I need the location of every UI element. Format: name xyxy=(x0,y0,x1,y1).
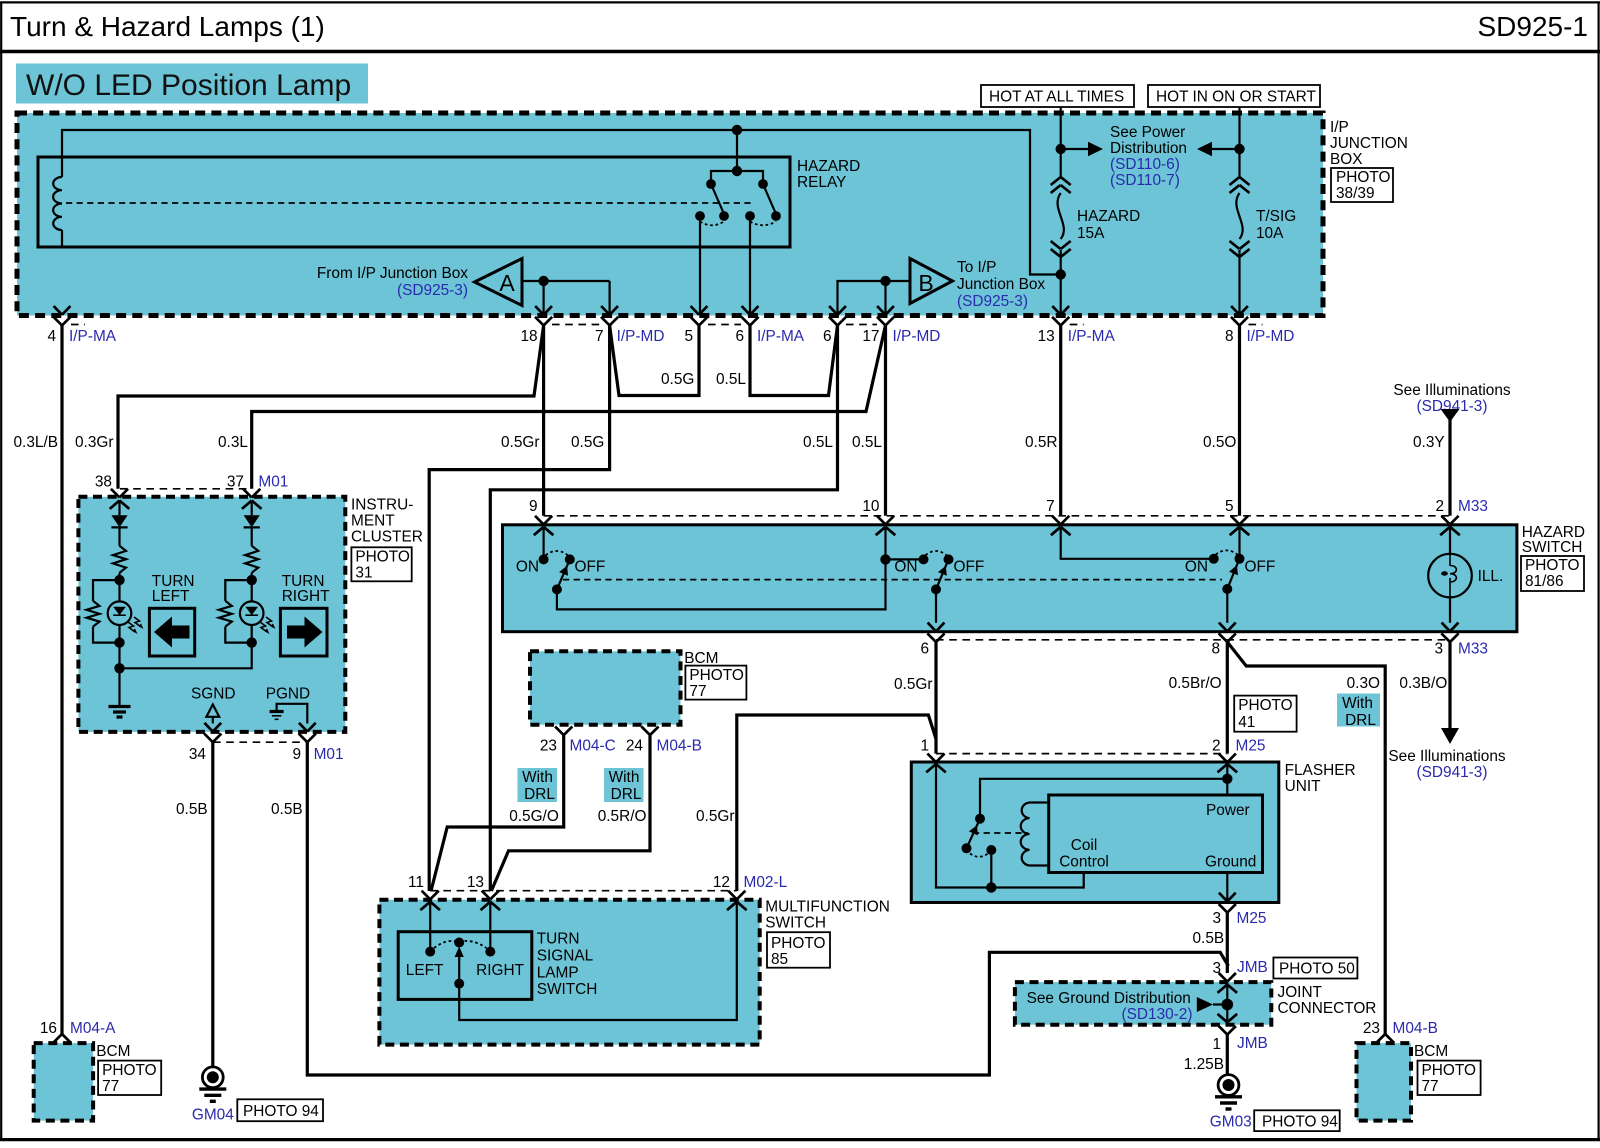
svg-text:PHOTO: PHOTO xyxy=(1336,169,1390,186)
svg-text:HAZARD: HAZARD xyxy=(797,158,860,175)
flasher internal: pin1 wire xyxy=(936,764,991,888)
svg-text:With: With xyxy=(609,769,640,786)
svg-text:M25: M25 xyxy=(1236,738,1266,755)
svg-text:FLASHER: FLASHER xyxy=(1285,762,1356,779)
svg-text:Coil: Coil xyxy=(1071,837,1098,854)
svg-text:M33: M33 xyxy=(1458,641,1488,658)
svg-text:7: 7 xyxy=(595,328,604,345)
svg-text:34: 34 xyxy=(189,746,207,763)
svg-text:(SD925-3): (SD925-3) xyxy=(397,282,468,299)
arrow into joint connector node xyxy=(1197,997,1213,1012)
svg-text:0.3O: 0.3O xyxy=(1347,675,1380,692)
cluster pin 34 xyxy=(204,723,212,732)
svg-text:0.3L/B: 0.3L/B xyxy=(14,434,59,451)
wire to resistor xyxy=(118,527,120,545)
svg-text:4: 4 xyxy=(47,328,56,345)
With DRL tag (pin23) xyxy=(518,768,558,802)
photo ref PHOTO 94 (GM03) xyxy=(1254,1110,1340,1131)
svg-text:3: 3 xyxy=(1212,910,1221,927)
wire 0.3Gr pin18 branch to cluster pin38 xyxy=(118,325,544,488)
junction node top rail / relay contacts xyxy=(732,125,742,135)
flasher coil xyxy=(1021,803,1030,866)
MF pin 12 M02-L xyxy=(728,891,737,900)
wire switch1 output xyxy=(557,559,886,609)
wire 1.25B to GM03 xyxy=(1226,1035,1229,1076)
arrow to See Power Distribution (left) xyxy=(1212,148,1240,150)
With DRL tag (pin24) xyxy=(604,768,644,802)
svg-text:CONNECTOR: CONNECTOR xyxy=(1278,1000,1377,1017)
svg-text:9: 9 xyxy=(529,498,538,515)
svg-text:HOT AT ALL TIMES: HOT AT ALL TIMES xyxy=(989,89,1124,106)
svg-text:10A: 10A xyxy=(1256,225,1284,242)
switch 2 (pin10 to pin6) ON/OFF xyxy=(884,527,886,560)
junction node left branch bottom xyxy=(114,637,124,647)
junction node to sub ground xyxy=(114,663,124,673)
BCM pin 16 M04-A xyxy=(53,1034,62,1043)
connector line M33 top xyxy=(544,515,1450,517)
svg-text:I/P-MD: I/P-MD xyxy=(1247,328,1295,345)
wire: top rail coil to fuse node xyxy=(62,130,1058,275)
svg-text:B: B xyxy=(918,270,933,296)
svg-text:SGND: SGND xyxy=(191,686,235,703)
svg-text:RELAY: RELAY xyxy=(797,174,846,191)
wire 0.5G pin7 to multifunction switch pin11 xyxy=(429,325,609,891)
illumination lamp ILL. xyxy=(1449,527,1451,554)
svg-text:13: 13 xyxy=(467,874,484,891)
svg-text:10: 10 xyxy=(862,498,879,515)
arrow to See Power Distribution (right) xyxy=(1061,148,1088,150)
svg-text:I/P-MD: I/P-MD xyxy=(617,328,665,345)
svg-text:With: With xyxy=(522,769,553,786)
svg-text:BOX: BOX xyxy=(1330,151,1363,168)
svg-text:See Illuminations: See Illuminations xyxy=(1388,748,1506,765)
svg-text:MENT: MENT xyxy=(351,513,395,530)
connector line M02-L xyxy=(430,890,737,892)
svg-text:15A: 15A xyxy=(1077,225,1105,242)
svg-text:OFF: OFF xyxy=(1245,559,1276,576)
svg-text:INSTRU-: INSTRU- xyxy=(351,497,413,514)
ground GM03 xyxy=(1218,1075,1239,1096)
turn left lamp xyxy=(118,580,120,601)
hazard switch pin 6 M33 xyxy=(928,623,936,632)
svg-text:5: 5 xyxy=(1225,498,1234,515)
svg-text:8: 8 xyxy=(1211,641,1220,658)
svg-text:Distribution: Distribution xyxy=(1110,140,1187,157)
svg-text:From I/P Junction Box: From I/P Junction Box xyxy=(317,265,468,282)
flasher switch contact xyxy=(975,814,985,824)
With DRL tag (0.3O wire) xyxy=(1337,694,1380,727)
svg-text:PHOTO: PHOTO xyxy=(771,935,825,952)
fuse HAZARD 15A xyxy=(1051,177,1061,185)
switch 1 (pin9) ON/OFF xyxy=(542,527,544,560)
svg-text:LEFT: LEFT xyxy=(406,962,444,979)
svg-text:1.25B: 1.25B xyxy=(1184,1056,1224,1073)
svg-text:ON: ON xyxy=(894,559,917,576)
svg-text:M04-A: M04-A xyxy=(70,1020,116,1037)
svg-text:JOINT: JOINT xyxy=(1278,984,1323,1001)
svg-text:PHOTO 94: PHOTO 94 xyxy=(243,1103,319,1120)
wire: pins 6/17 to triangle B xyxy=(838,281,911,315)
svg-text:PHOTO: PHOTO xyxy=(1525,557,1579,574)
relay internal dashed link xyxy=(66,202,755,204)
photo ref PHOTO 77 xyxy=(685,666,746,700)
wire 0.5Gr switch pin6 to flasher pin1 and MF pin12 xyxy=(934,642,937,754)
svg-text:GM04: GM04 xyxy=(192,1107,234,1124)
wire 0.5G loop pin5 to pin7 xyxy=(610,325,699,395)
svg-text:1: 1 xyxy=(920,738,929,755)
svg-text:0.5B: 0.5B xyxy=(176,801,208,818)
svg-text:8: 8 xyxy=(1225,328,1234,345)
svg-text:0.5R/O: 0.5R/O xyxy=(598,808,647,825)
hazard switch pin 3 M33 xyxy=(1442,623,1450,632)
wire: ignition feed into fuse T/SIG xyxy=(1238,107,1240,177)
svg-text:OFF: OFF xyxy=(954,559,985,576)
svg-text:M02-L: M02-L xyxy=(744,874,788,891)
svg-text:DRL: DRL xyxy=(611,786,642,803)
svg-text:31: 31 xyxy=(355,564,372,581)
svg-text:3: 3 xyxy=(1434,641,1443,658)
svg-text:77: 77 xyxy=(689,683,706,700)
junction box pin 4 I/P-MA xyxy=(54,306,62,315)
flasher relay module box xyxy=(1049,795,1263,873)
svg-text:PHOTO: PHOTO xyxy=(1422,1062,1476,1079)
svg-text:12: 12 xyxy=(713,874,730,891)
PGND symbol xyxy=(277,704,308,724)
svg-text:0.5L: 0.5L xyxy=(803,434,833,451)
flasher internal: bottom node xyxy=(990,850,992,888)
junction node ignition feed xyxy=(1234,144,1244,154)
wire 0.5R pin13 to hazard switch pin7 xyxy=(1059,325,1062,515)
svg-text:PHOTO: PHOTO xyxy=(102,1062,156,1079)
svg-text:HAZARD: HAZARD xyxy=(1077,208,1140,225)
svg-text:0.3B/O: 0.3B/O xyxy=(1399,675,1447,692)
label HOT AT ALL TIMES xyxy=(981,85,1134,107)
photo ref PHOTO 41 xyxy=(1234,696,1296,732)
wire: triangle A to pins 18/7 xyxy=(522,280,610,282)
MF wiper arc xyxy=(434,941,459,948)
svg-text:(SD941-3): (SD941-3) xyxy=(1417,764,1488,781)
svg-text:0.5R: 0.5R xyxy=(1025,434,1058,451)
svg-text:0.5B: 0.5B xyxy=(271,801,303,818)
flasher pin 1 xyxy=(927,754,936,763)
header label: W/O LED Position Lamp xyxy=(16,64,368,104)
hazard switch pin 7 M33 xyxy=(1052,516,1061,525)
wire 0.5L pin17 to hazard switch pin10 xyxy=(884,325,887,515)
turn left arrow icon xyxy=(149,608,194,656)
svg-text:BCM: BCM xyxy=(1414,1043,1448,1060)
svg-text:85: 85 xyxy=(771,951,788,968)
svg-text:0.5G: 0.5G xyxy=(571,434,604,451)
svg-text:LEFT: LEFT xyxy=(152,588,190,605)
wire: fuse HAZARD output to pin 13 xyxy=(1060,250,1062,315)
junction box pin 7 I/P-MD xyxy=(601,306,609,315)
svg-text:CLUSTER: CLUSTER xyxy=(351,529,423,546)
svg-text:23: 23 xyxy=(1363,1020,1380,1037)
svg-text:11: 11 xyxy=(408,874,424,891)
relay moving contact right xyxy=(758,179,768,189)
junction node battery feed xyxy=(1056,144,1066,154)
svg-text:W/O LED Position Lamp: W/O LED Position Lamp xyxy=(26,69,351,102)
svg-text:81/86: 81/86 xyxy=(1525,573,1564,590)
wire 0.5R/O BCM24 to MF pin13 xyxy=(491,735,650,891)
svg-text:M01: M01 xyxy=(314,746,344,763)
svg-text:See Power: See Power xyxy=(1110,124,1185,141)
junction box pin 18 xyxy=(535,306,543,315)
title divider line xyxy=(0,50,1600,53)
flasher pin 2 M25 xyxy=(1219,754,1228,763)
wire 0.5Gr pin18 to hazard switch pin9 xyxy=(542,325,545,515)
svg-text:Ground: Ground xyxy=(1205,854,1256,871)
svg-text:SD925-1: SD925-1 xyxy=(1477,11,1588,42)
svg-text:2: 2 xyxy=(1435,498,1444,515)
connector triangle B To I/P Junction Box (SD925-3) xyxy=(910,259,953,304)
parallel resistor loop right xyxy=(225,580,251,601)
turn left indicator diode xyxy=(118,501,120,516)
svg-text:38: 38 xyxy=(95,474,112,491)
page border frame xyxy=(0,1,1600,3)
relay fixed contact right xyxy=(745,211,755,221)
MF internal: pin13 to RIGHT contact xyxy=(489,902,491,952)
svg-text:PHOTO: PHOTO xyxy=(689,667,743,684)
connector bridge pins 6-17 xyxy=(846,324,877,326)
svg-text:SIGNAL: SIGNAL xyxy=(537,947,594,964)
svg-text:(SD130-2): (SD130-2) xyxy=(1122,1006,1193,1023)
svg-text:RIGHT: RIGHT xyxy=(476,962,524,979)
wire 0.3L/B pin4 to BCM pin16 xyxy=(60,325,63,1034)
svg-text:(SD110-7): (SD110-7) xyxy=(1110,172,1180,189)
svg-text:PHOTO: PHOTO xyxy=(1238,697,1292,714)
BCM pin 23 M04-B xyxy=(1377,1034,1386,1043)
svg-text:0.5Gr: 0.5Gr xyxy=(501,434,540,451)
junction box pin 6 xyxy=(829,306,837,315)
BCM box (bottom left) xyxy=(34,1043,93,1121)
connector triangle A From I/P Junction Box (SD925-3) xyxy=(475,259,523,306)
cluster internal ground xyxy=(118,668,120,706)
photo ref PHOTO 77 (right BCM) xyxy=(1418,1061,1481,1095)
hazard switch pin 10 M33 xyxy=(877,516,886,525)
hazard switch pin 2 M33 xyxy=(1441,516,1450,525)
BCM pin 23 M04-C xyxy=(555,727,564,736)
wire: relay contact to pin 6 xyxy=(749,216,751,315)
svg-text:DRL: DRL xyxy=(1345,712,1376,729)
cluster pin 9 M01 xyxy=(299,723,307,732)
svg-text:77: 77 xyxy=(102,1078,119,1095)
resistor (right branch series) xyxy=(245,546,258,573)
junction box pin 8 I/P-MD xyxy=(1231,306,1239,315)
svg-text:23: 23 xyxy=(540,738,557,755)
hazard relay box xyxy=(38,157,790,247)
BCM pin 24 M04-B xyxy=(641,727,650,736)
svg-text:0.3L: 0.3L xyxy=(218,434,248,451)
connector line M33 bottom xyxy=(936,639,1450,641)
svg-text:0.5L: 0.5L xyxy=(716,371,746,388)
joint connector box xyxy=(1015,982,1271,1025)
svg-text:0.5Br/O: 0.5Br/O xyxy=(1169,675,1222,692)
svg-text:TURN: TURN xyxy=(537,931,580,948)
photo ref PHOTO 77 (left BCM) xyxy=(98,1061,161,1095)
svg-text:OFF: OFF xyxy=(575,559,606,576)
wire 0.5L loop pin6 to pin6 xyxy=(750,325,838,395)
SGND symbol xyxy=(206,705,219,717)
relay moving contact left xyxy=(706,179,716,189)
parallel resistor loop left xyxy=(93,580,120,601)
fuse T/SIG 10A xyxy=(1230,177,1240,185)
junction node right branch top xyxy=(247,575,257,585)
svg-text:2: 2 xyxy=(1212,738,1221,755)
wire: relay contact to pin 5 xyxy=(699,216,701,315)
turn signal lamp switch inner box xyxy=(398,932,532,1000)
svg-text:LAMP: LAMP xyxy=(537,964,579,981)
svg-text:0.5Gr: 0.5Gr xyxy=(696,808,735,825)
svg-text:16: 16 xyxy=(40,1020,57,1037)
svg-text:(SD925-3): (SD925-3) xyxy=(957,293,1028,310)
junction node fuse output / relay rail xyxy=(1056,269,1066,279)
cluster pin 38 xyxy=(111,489,120,498)
MF wiper arm xyxy=(458,950,460,984)
hazard switch pin 9 M33 xyxy=(535,516,544,525)
hazard switch pin 5 M33 xyxy=(1231,516,1240,525)
connector line M25 top xyxy=(936,753,1227,755)
photo ref PHOTO 38/39 xyxy=(1331,168,1393,202)
svg-text:HOT IN ON OR START: HOT IN ON OR START xyxy=(1156,89,1317,106)
connector line M01 top xyxy=(120,488,252,490)
svg-text:0.5B: 0.5B xyxy=(1193,930,1225,947)
MF pin 11 xyxy=(422,891,431,900)
svg-text:GM03: GM03 xyxy=(1210,1114,1252,1131)
wire 0.3B/O pin3 to See Illuminations xyxy=(1448,642,1451,728)
svg-text:M04-B: M04-B xyxy=(657,738,702,755)
MF internal: pin11 to LEFT contact xyxy=(429,902,431,952)
junction box pin 6 I/P-MA xyxy=(742,306,750,315)
svg-text:13: 13 xyxy=(1038,328,1055,345)
svg-text:PHOTO 50: PHOTO 50 xyxy=(1279,961,1355,978)
svg-text:BCM: BCM xyxy=(684,650,718,667)
turn right lamp xyxy=(251,580,253,601)
svg-text:ILL.: ILL. xyxy=(1478,568,1504,585)
svg-text:M01: M01 xyxy=(258,474,288,491)
connector bridge pins 18-7 xyxy=(552,324,601,326)
switch 3 (pin7/pin5 to pin8) ON/OFF xyxy=(1061,527,1214,559)
svg-text:5: 5 xyxy=(684,328,693,345)
wire 0.5Br/O switch pin8 to flasher pin2 xyxy=(1226,642,1229,754)
I/P Junction Box (dashed) xyxy=(17,113,1323,316)
svg-text:I/P: I/P xyxy=(1330,119,1349,136)
turn right indicator diode xyxy=(251,501,253,516)
svg-text:6: 6 xyxy=(823,328,832,345)
wire 0.5B pin34 to GM04 xyxy=(211,742,214,1067)
svg-text:I/P-MA: I/P-MA xyxy=(1068,328,1116,345)
wire 0.3L pin17 branch to cluster pin37 xyxy=(252,325,886,488)
svg-text:0.5Gr: 0.5Gr xyxy=(894,676,933,693)
junction box pin 17 I/P-MD xyxy=(877,306,885,315)
svg-text:JMB: JMB xyxy=(1237,959,1268,976)
svg-text:M04-C: M04-C xyxy=(570,738,616,755)
svg-text:MULTIFUNCTION: MULTIFUNCTION xyxy=(765,899,890,916)
flasher pin 3 M25 xyxy=(1219,904,1228,913)
hazard switch internal dashed linkage xyxy=(563,579,1222,581)
wire 0.5G/O BCM23 to MF pin11 xyxy=(431,735,564,891)
svg-text:UNIT: UNIT xyxy=(1285,778,1322,795)
svg-text:0.5L: 0.5L xyxy=(852,434,882,451)
svg-text:I/P-MA: I/P-MA xyxy=(69,328,117,345)
svg-text:ON: ON xyxy=(1185,559,1208,576)
joint connector wire through xyxy=(1226,983,1228,1024)
wire 0.5B pin9 to joint connector xyxy=(307,742,1228,1075)
wire 0.5O pin8 to hazard switch pin5 xyxy=(1238,325,1241,515)
svg-text:17: 17 xyxy=(862,328,879,345)
svg-text:38/39: 38/39 xyxy=(1336,185,1375,202)
wire 0.3Y illumination feed to hazard switch pin2 xyxy=(1448,410,1451,516)
svg-text:PHOTO 94: PHOTO 94 xyxy=(1262,1114,1338,1131)
multifunction switch box xyxy=(379,900,759,1045)
wire: battery feed into fuse HAZARD xyxy=(1060,107,1062,177)
svg-text:0.5G: 0.5G xyxy=(661,371,694,388)
svg-text:24: 24 xyxy=(626,738,644,755)
wire 0.3O switch pin8 to BCM pin23 (bottom right) xyxy=(1227,642,1385,1034)
wire: fuse T/SIG output to pin 8 xyxy=(1238,250,1240,315)
flasher mech dashed link xyxy=(973,832,1028,834)
relay coil xyxy=(61,157,63,177)
ground GM04 xyxy=(202,1067,223,1088)
flasher internal: feed to switch contact xyxy=(980,779,1227,819)
svg-text:6: 6 xyxy=(920,641,929,658)
relay fixed contact left xyxy=(695,211,705,221)
svg-text:Control: Control xyxy=(1059,854,1109,871)
svg-text:T/SIG: T/SIG xyxy=(1256,208,1296,225)
svg-text:JMB: JMB xyxy=(1237,1035,1268,1052)
svg-text:0.3Y: 0.3Y xyxy=(1413,434,1445,451)
photo ref PHOTO 50 xyxy=(1273,958,1357,979)
junction node right branch bottom xyxy=(247,637,257,647)
svg-text:PHOTO: PHOTO xyxy=(355,548,409,565)
svg-text:With: With xyxy=(1342,695,1373,712)
svg-text:M25: M25 xyxy=(1237,910,1267,927)
MF pin 13 xyxy=(482,891,491,900)
svg-text:Junction Box: Junction Box xyxy=(957,276,1045,293)
junction box pin 5 xyxy=(691,306,699,315)
flasher unit box xyxy=(911,762,1279,903)
flasher internal: ground exit xyxy=(1226,873,1228,902)
label HOT IN ON OR START xyxy=(1148,85,1320,107)
photo ref PHOTO 85 xyxy=(767,932,830,968)
svg-text:0.3Gr: 0.3Gr xyxy=(75,434,114,451)
turn right arrow icon xyxy=(280,608,327,656)
svg-text:To I/P: To I/P xyxy=(957,259,996,276)
svg-text:BCM: BCM xyxy=(96,1043,130,1060)
photo ref PHOTO 81/86 xyxy=(1521,556,1584,591)
svg-text:9: 9 xyxy=(292,746,301,763)
svg-text:I/P-MD: I/P-MD xyxy=(893,328,941,345)
svg-text:PGND: PGND xyxy=(266,686,310,703)
resistor (left branch series) xyxy=(113,546,126,573)
svg-text:I/P-MA: I/P-MA xyxy=(757,328,805,345)
svg-text:M33: M33 xyxy=(1458,498,1488,515)
flasher internal: pin2 node xyxy=(1226,764,1228,795)
svg-text:RIGHT: RIGHT xyxy=(282,588,330,605)
connector line M01 bottom xyxy=(213,741,307,743)
hazard switch pin 8 M33 xyxy=(1219,623,1227,632)
BCM box (center) xyxy=(530,651,681,724)
svg-text:SWITCH: SWITCH xyxy=(1522,539,1583,556)
wire cross link to right branch xyxy=(120,643,252,669)
svg-text:Turn & Hazard Lamps (1): Turn & Hazard Lamps (1) xyxy=(10,11,325,42)
svg-text:A: A xyxy=(499,270,515,296)
photo ref PHOTO 31 xyxy=(351,547,411,581)
connector bridge pins 5-6 xyxy=(708,324,741,326)
junction box pin 13 I/P-MA xyxy=(1052,306,1060,315)
svg-text:(SD110-6): (SD110-6) xyxy=(1110,156,1180,173)
svg-text:77: 77 xyxy=(1422,1078,1439,1095)
